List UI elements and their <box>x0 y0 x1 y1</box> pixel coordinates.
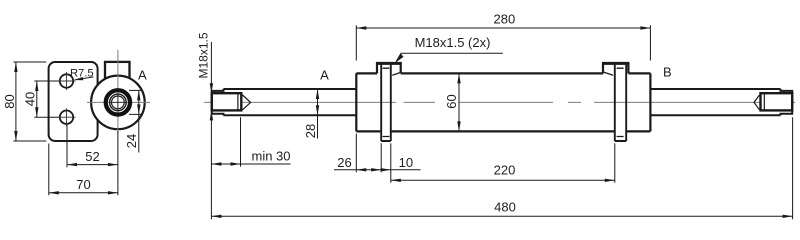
dimension 70 <box>49 131 118 195</box>
right rod end profile <box>781 89 793 116</box>
svg-text:40: 40 <box>23 92 38 106</box>
dimension 80 <box>13 62 46 141</box>
thread circle outer <box>110 94 127 111</box>
svg-text:A: A <box>138 67 147 82</box>
thread circle inner <box>112 96 125 109</box>
cylinder barrel <box>356 73 650 131</box>
port boss tab (behind boss circle) <box>105 62 130 79</box>
dimension min 30 <box>240 117 242 166</box>
gland nut ring <box>106 90 130 114</box>
svg-text:M18x1.5: M18x1.5 <box>197 32 211 78</box>
leader R7.5 <box>76 77 94 80</box>
svg-text:10: 10 <box>399 155 413 170</box>
boss center cross <box>110 94 127 111</box>
svg-text:52: 52 <box>85 149 99 164</box>
piston rod right segment <box>650 89 780 115</box>
left thread cone <box>243 95 251 110</box>
boss centerline horizontal <box>87 101 150 103</box>
left rod end profile <box>212 89 224 116</box>
flange plate <box>49 62 98 141</box>
right port bottom stub <box>615 140 626 142</box>
svg-text:M18x1.5 (2x): M18x1.5 (2x) <box>415 35 491 50</box>
left port bore <box>381 62 391 141</box>
boss centerline vertical <box>117 50 119 134</box>
svg-text:min 30: min 30 <box>251 149 290 164</box>
dimension 220 <box>614 143 616 183</box>
svg-text:26: 26 <box>337 155 351 170</box>
left rod thread M18x1.5 <box>212 93 242 110</box>
dimension 52 <box>66 125 68 167</box>
main centerline axis <box>204 101 795 103</box>
svg-text:70: 70 <box>76 177 90 192</box>
hole bottom crosshair <box>58 108 76 126</box>
svg-text:280: 280 <box>494 12 516 27</box>
right port thread ticks <box>617 68 624 136</box>
right port boss cap <box>603 63 628 73</box>
svg-text:480: 480 <box>494 200 516 215</box>
svg-text:220: 220 <box>494 162 516 177</box>
right port bore <box>615 62 626 141</box>
mounting hole top <box>60 74 73 87</box>
svg-text:24: 24 <box>124 134 139 148</box>
dimension 60 <box>458 73 460 131</box>
svg-text:80: 80 <box>2 94 17 108</box>
left boss weld line <box>392 72 401 75</box>
dimension 480 <box>792 117 794 219</box>
left port boss cap <box>377 63 401 73</box>
svg-text:28: 28 <box>303 124 318 138</box>
dimension 26 <box>356 134 381 173</box>
svg-text:60: 60 <box>444 94 459 108</box>
right rod thread M18x1.5 <box>761 93 793 110</box>
hole top crosshair <box>58 72 76 90</box>
right thread cone <box>754 95 760 110</box>
right boss weld line <box>604 72 613 75</box>
right thread runout line <box>763 93 765 110</box>
cylinder boss circle <box>91 76 145 130</box>
left thread runout line <box>237 93 239 110</box>
mounting hole bottom <box>60 111 73 124</box>
left port bottom stub <box>381 140 391 142</box>
dimension 10 <box>390 143 392 183</box>
left port thread ticks <box>383 68 390 136</box>
piston rod left segment <box>224 89 357 115</box>
dimension 24 <box>129 90 142 114</box>
dimension 280 <box>356 25 650 60</box>
svg-text:A: A <box>320 68 329 83</box>
dimension 28 (rod diameter) <box>317 89 319 139</box>
svg-text:B: B <box>663 64 672 79</box>
dimension 40 <box>34 81 58 117</box>
